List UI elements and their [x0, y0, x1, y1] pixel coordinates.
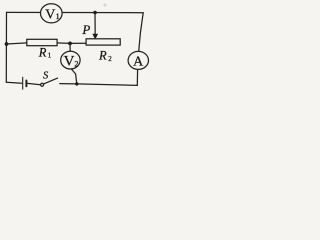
- wire middle left: [7, 43, 27, 44]
- node junction top P feed: [93, 11, 97, 15]
- wire V2 top stub: [69, 43, 71, 51]
- label V2: [64, 54, 79, 70]
- svg-text:S: S: [43, 71, 49, 82]
- svg-text:2: 2: [108, 55, 112, 63]
- wire right lower vertical: [136, 69, 138, 85]
- wire right upper vertical: [139, 13, 144, 52]
- wire V2 bottom stub: [71, 69, 77, 84]
- resistor R1 box: [27, 39, 57, 45]
- node junction bottom: [75, 82, 78, 85]
- battery cell: [23, 77, 27, 89]
- ammeter A circle: [128, 51, 148, 69]
- svg-text:V: V: [45, 7, 55, 22]
- label V1: [45, 7, 59, 22]
- scan speck: [103, 3, 106, 6]
- svg-text:R: R: [38, 46, 47, 60]
- svg-text:1: 1: [56, 12, 60, 21]
- resistor R2 box: [86, 39, 120, 45]
- svg-text:2: 2: [74, 60, 78, 69]
- svg-text:1: 1: [48, 52, 52, 60]
- wire battery to switch: [28, 83, 41, 84]
- voltmeter V1 circle: [41, 4, 63, 23]
- wire bottom right: [60, 84, 138, 86]
- wire left vertical: [5, 12, 7, 82]
- node junction middle: [68, 42, 72, 46]
- switch S: [41, 78, 58, 86]
- svg-text:V: V: [64, 54, 75, 70]
- label R2: [98, 48, 112, 62]
- wire top: [7, 11, 144, 13]
- svg-text:A: A: [133, 55, 144, 70]
- slider arrow of rheostat: [92, 13, 98, 40]
- label R1: [38, 46, 52, 60]
- svg-text:P: P: [81, 22, 90, 37]
- node junction left: [5, 42, 9, 46]
- svg-text:R: R: [98, 48, 107, 62]
- wire bottom left: [6, 82, 21, 83]
- wire R1 to R2: [57, 42, 86, 45]
- voltmeter V2 circle: [61, 51, 80, 69]
